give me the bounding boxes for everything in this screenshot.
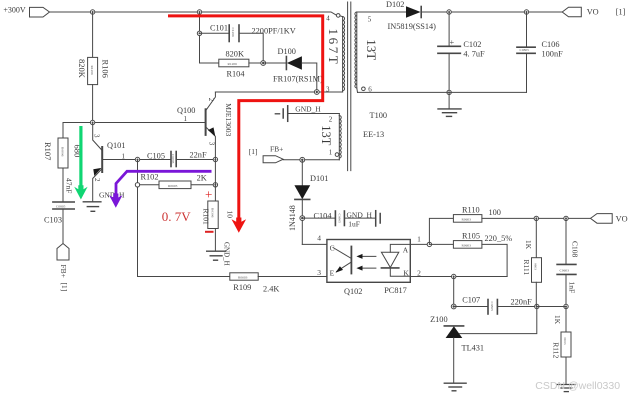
power port GND_H at C104 (347, 210, 381, 228)
svg-text:FB+: FB+ (59, 265, 68, 278)
capacitor C101 (200, 23, 296, 63)
node R111 top junction (534, 216, 538, 220)
svg-text:+: + (205, 186, 212, 201)
wire node up to R110 (429, 218, 453, 244)
node C105 right junction (213, 157, 217, 161)
annotation purple arrow (109, 171, 211, 208)
capacitor C108 (557, 218, 579, 306)
svg-text:T100: T100 (370, 111, 388, 120)
svg-text:C102: C102 (463, 40, 481, 49)
svg-text:2200PF/1KV: 2200PF/1KV (252, 26, 296, 35)
svg-text:220_5%: 220_5% (485, 234, 513, 243)
svg-text:1nF: 1nF (568, 282, 577, 294)
diode D101 (288, 160, 328, 245)
svg-text:1: 1 (184, 115, 188, 123)
svg-text:2: 2 (207, 98, 215, 102)
transformer primary winding 167T pins 4-3 (326, 14, 345, 94)
svg-text:R109: R109 (233, 283, 251, 292)
svg-text:R112: R112 (551, 342, 560, 358)
svg-text:3: 3 (92, 134, 100, 138)
node top rail snubber junction (197, 10, 201, 14)
node C107 right junction (535, 304, 539, 308)
node base rail junction (90, 120, 94, 124)
transformer secondary winding 13T pins 5-6 (355, 12, 379, 93)
wire R101 to ground (214, 229, 216, 251)
svg-text:C105: C105 (147, 151, 165, 160)
resistor R107 (43, 123, 83, 169)
svg-text:3: 3 (207, 142, 215, 146)
node primary pin3 junction (314, 90, 319, 95)
svg-text:R1206: R1206 (90, 66, 94, 76)
svg-text:C0805: C0805 (56, 204, 66, 208)
annotation green arrow (74, 126, 87, 200)
diode D102 (357, 0, 562, 31)
svg-text:0603: 0603 (533, 263, 537, 270)
wire C103 to FB+ tag (62, 210, 64, 244)
optocoupler Q102 PC817 (317, 233, 421, 295)
port +300V tag (3, 6, 49, 17)
svg-text:C108: C108 (570, 241, 579, 258)
svg-text:13T: 13T (364, 39, 379, 60)
svg-text:4. 7uF: 4. 7uF (463, 50, 485, 59)
svg-text:[1]: [1] (249, 147, 258, 156)
port VO tag lower (591, 214, 628, 224)
svg-text:1: 1 (122, 153, 126, 161)
svg-text:1: 1 (329, 149, 333, 157)
capacitor C104 (302, 211, 375, 226)
node C102 top junction (447, 10, 451, 14)
resistor R105 (429, 232, 512, 277)
svg-text:FR107(RS1M): FR107(RS1M) (273, 74, 323, 83)
svg-text:R106: R106 (101, 60, 111, 78)
svg-text:VO: VO (587, 7, 599, 16)
wire divider node (537, 306, 566, 308)
svg-text:R0806: R0806 (61, 147, 65, 157)
wire FB+ to feedback pin1 (283, 159, 339, 161)
svg-text:D100: D100 (278, 47, 296, 56)
capacitor C106 (517, 12, 563, 92)
svg-text:Z100: Z100 (430, 315, 448, 324)
svg-text:4: 4 (326, 14, 330, 22)
transistor Q100 (177, 92, 233, 160)
svg-text:R104: R104 (227, 70, 246, 79)
wire C105 node down through R102 to R101 (214, 160, 216, 202)
svg-text:1: 1 (417, 235, 421, 244)
svg-text:R107: R107 (43, 142, 53, 160)
resistor R106 (77, 12, 111, 85)
svg-text:R101: R101 (201, 209, 210, 226)
svg-text:C104: C104 (314, 211, 333, 220)
svg-text:47nF: 47nF (65, 178, 74, 193)
node top rail R106 junction (90, 10, 94, 14)
capacitor C102 (438, 12, 485, 92)
ground at C102 (438, 109, 461, 117)
node Q101 base junction (135, 157, 139, 161)
wire vertical Q101 base to R109 (137, 160, 139, 277)
node C106 top junction (524, 10, 528, 14)
wire K node down to C107 (453, 277, 455, 307)
svg-text:IN5819(SS14): IN5819(SS14) (388, 22, 437, 31)
transformer T100 core (348, 2, 387, 171)
node C104 junction (300, 216, 305, 221)
svg-text:C1206: C1206 (231, 28, 235, 38)
svg-text:C103: C103 (44, 216, 62, 225)
wire Q100 collector to primary pin3 (215, 91, 342, 93)
ground at R112 (557, 385, 575, 392)
wire opto pin1 to R110/R105 node (410, 243, 429, 245)
svg-text:R0603: R0603 (462, 243, 472, 247)
svg-text:Q102: Q102 (344, 287, 362, 296)
svg-text:0603: 0603 (563, 338, 567, 345)
svg-text:GND_H: GND_H (295, 104, 321, 113)
svg-text:1uF: 1uF (348, 220, 360, 229)
svg-text:EE-13: EE-13 (363, 130, 384, 139)
resistor R104 (200, 50, 264, 79)
wire secondary return (358, 91, 527, 93)
annotation red current path arrow (168, 16, 323, 233)
svg-text:C0805: C0805 (171, 154, 175, 164)
svg-text:167T: 167T (326, 29, 341, 67)
svg-text:C101: C101 (210, 23, 228, 32)
wire opto pin2 to R105 corner (410, 276, 507, 278)
svg-text:13T: 13T (319, 125, 333, 146)
node K junction (452, 274, 456, 278)
svg-text:4: 4 (317, 233, 321, 242)
wire R107 to C103 (62, 168, 64, 202)
resistor R112 (551, 307, 571, 385)
diode D100 (263, 47, 323, 92)
svg-text:R0603: R0603 (238, 276, 248, 280)
svg-text:FB+: FB+ (270, 145, 283, 154)
svg-text:C0603: C0603 (560, 268, 570, 272)
svg-text:2: 2 (329, 115, 333, 123)
svg-text:3: 3 (317, 268, 321, 277)
resistor R111 (522, 218, 542, 306)
port FB+ bottom tag (57, 244, 69, 292)
svg-text:R111: R111 (522, 260, 531, 276)
svg-text:5: 5 (368, 15, 372, 23)
svg-text:[1]: [1] (60, 283, 69, 292)
node C107 left junction (451, 304, 456, 309)
capacitor C105 (138, 151, 216, 167)
svg-text:2K: 2K (197, 173, 207, 182)
svg-text:+300V: +300V (3, 6, 26, 15)
svg-text:E: E (330, 268, 335, 277)
svg-text:Q100: Q100 (177, 106, 195, 115)
transistor Q101 (92, 123, 137, 202)
svg-text:A: A (403, 245, 409, 254)
svg-text:GND_H: GND_H (223, 242, 231, 266)
transformer feedback winding 13T pins 2-1 (319, 114, 341, 160)
svg-text:GND_H: GND_H (347, 210, 373, 219)
node R102 right junction (213, 183, 217, 187)
svg-text:MJE13003: MJE13003 (224, 103, 233, 136)
annotation red 0.7V text (162, 186, 214, 231)
svg-text:PC817: PC817 (384, 286, 407, 295)
svg-text:C0805: C0805 (337, 214, 341, 224)
node C108 top junction (564, 216, 568, 220)
node C101 left junction (197, 31, 201, 35)
svg-text:C0805: C0805 (520, 48, 530, 52)
svg-text:R0306: R0306 (211, 208, 215, 218)
svg-text:R102: R102 (141, 173, 159, 182)
svg-text:100: 100 (489, 208, 501, 217)
svg-text:R0603: R0603 (168, 184, 178, 188)
ground at TL431 (444, 383, 466, 391)
svg-text:C107: C107 (462, 296, 480, 305)
svg-text:VO: VO (616, 215, 628, 224)
capacitor C107 (454, 296, 537, 314)
svg-text:2.4K: 2.4K (263, 285, 279, 294)
svg-text:820K: 820K (77, 59, 87, 79)
capacitor C103 (44, 178, 74, 225)
svg-text:R110: R110 (462, 205, 480, 214)
svg-text:TL431: TL431 (462, 344, 485, 353)
node FB+ junction (300, 157, 305, 162)
wire R106 bottom to base rail (92, 85, 94, 123)
resistor R110 (453, 205, 590, 222)
svg-text:R1206: R1206 (228, 62, 238, 66)
svg-text:CSDN @well0330: CSDN @well0330 (535, 380, 620, 392)
resistor R102 (135, 173, 215, 189)
svg-text:C106: C106 (542, 40, 560, 49)
port FB+ tag (249, 145, 284, 163)
svg-text:D102: D102 (386, 0, 404, 9)
svg-text:[1]: [1] (616, 7, 626, 16)
svg-text:2: 2 (93, 178, 101, 182)
wire top rail (50, 12, 337, 15)
svg-text:10: 10 (225, 211, 234, 219)
wire base rail (63, 122, 205, 124)
node secondary return junction (447, 90, 451, 94)
svg-text:22nF: 22nF (190, 151, 207, 160)
svg-text:820K: 820K (226, 50, 244, 59)
wire D101 to opto pin4 (302, 243, 327, 245)
resistor R109 (138, 273, 327, 294)
svg-text:1K: 1K (553, 315, 562, 325)
svg-text:1K: 1K (524, 240, 533, 250)
svg-text:0. 7V: 0. 7V (162, 209, 192, 224)
ground GND_H at Q101 emitter (83, 191, 125, 212)
svg-text:R105: R105 (462, 232, 480, 241)
node opto pin1 junction (427, 242, 431, 246)
svg-text:C0805: C0805 (490, 302, 494, 312)
power port GND_H at feedback pin2 (275, 104, 339, 121)
node C108 bottom junction (564, 304, 568, 308)
svg-text:R0603: R0603 (462, 217, 472, 221)
svg-text:+: + (450, 38, 455, 47)
ground GND_H at R101 (207, 242, 231, 266)
svg-text:100nF: 100nF (542, 50, 564, 59)
svg-text:3: 3 (326, 85, 330, 93)
wire snubber left vertical (199, 12, 201, 63)
resistor R101 (201, 201, 234, 229)
node R104 right junction (261, 61, 266, 66)
svg-text:Q101: Q101 (107, 141, 125, 150)
svg-text:D101: D101 (310, 174, 328, 183)
svg-text:1N4148: 1N4148 (288, 205, 297, 231)
svg-text:220nF: 220nF (511, 297, 533, 306)
wire C102 ground stem (448, 92, 450, 108)
transistor Z100 TL431 (430, 307, 537, 383)
port VO tag upper (562, 7, 598, 17)
